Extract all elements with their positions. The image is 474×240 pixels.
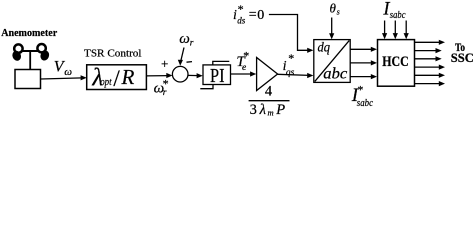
svg-text:+: + [161,56,168,71]
svg-text:abc: abc [323,65,347,82]
gain value fraction 4 / 3 lambda_m P [249,84,290,118]
svg-text:*: * [163,76,169,90]
TSR Control block lambda_opt/R [87,64,147,91]
wire gain to dq block [278,73,314,78]
transform dq/abc block [314,40,350,83]
svg-text:Anemometer: Anemometer [1,27,57,39]
svg-text:qs: qs [286,68,295,78]
PI lower limit mark [200,85,213,89]
wire dq to HCC phase b [350,60,377,65]
node Isabc* label [351,82,373,109]
node Vw label [54,58,73,78]
wire theta_s arrow into dq block [329,18,334,40]
node To SSC label [451,40,474,65]
anemometer sensor icon [11,44,51,89]
node Te* label [236,48,249,73]
op PI controller block [203,65,231,87]
svg-text:PI: PI [210,65,225,87]
svg-text:/: / [113,66,120,91]
controller HCC block [378,40,415,87]
node iqs* label [283,51,295,78]
svg-text:ω: ω [179,31,190,47]
wire HCC output 3 [415,56,442,61]
svg-text:sabc: sabc [357,97,373,109]
svg-text:R: R [121,65,135,89]
wire HCC output 6 [415,81,446,86]
wire HCC output 4 [415,65,446,70]
svg-text:opt: opt [100,76,112,88]
node theta_s label [330,0,340,16]
svg-text:r: r [190,38,194,48]
svg-text:s: s [337,7,340,16]
wire Vw: anemometer to TSR [41,75,87,80]
svg-text:ds: ds [237,15,246,25]
node Isabc label (measured currents) [382,0,405,21]
node ids*=0 label [233,2,264,26]
svg-text:3: 3 [250,102,257,118]
svg-text:SSC: SSC [451,51,474,65]
svg-text:*: * [243,48,249,62]
wire Isabc sensor arrow c [404,21,409,40]
gain block triangle [257,58,278,91]
wire Isabc sensor arrow b [393,21,398,40]
wire ids* to dq block [269,15,314,53]
svg-text:*: * [288,51,294,65]
wire Isabc sensor arrow a [382,21,387,40]
svg-text:λ: λ [259,102,266,118]
svg-text:m: m [268,108,274,118]
wire wr feedback arrow into junction [178,48,184,66]
wire TSR to summing junction [146,73,172,78]
svg-text:4: 4 [265,84,273,100]
svg-text:ω: ω [64,66,72,78]
svg-text:P: P [275,102,285,118]
svg-text:HCC: HCC [382,54,409,70]
svg-text:e: e [242,63,246,73]
PI upper limit mark [213,61,230,65]
svg-text:sabc: sabc [390,9,406,21]
svg-text:*: * [357,82,363,96]
svg-text:*: * [238,2,244,16]
svg-text:dq: dq [318,41,331,56]
wire dq to HCC phase a [350,47,377,52]
node wr* label [154,76,169,98]
node wr feedback label (top) [179,31,194,48]
wire HCC output 2 [415,48,442,53]
wire HCC output 1 [415,40,446,45]
svg-text:θ: θ [330,0,337,15]
minus sign [187,61,193,64]
svg-text:TSR Control: TSR Control [84,48,142,59]
wire dq to HCC phase c [350,74,377,79]
wire junction to PI [188,73,203,78]
svg-text:0: 0 [257,8,264,23]
wire PI to gain [231,71,256,76]
svg-text:=: = [249,8,257,23]
wire HCC output 5 [415,73,446,78]
summing junction [172,66,188,82]
